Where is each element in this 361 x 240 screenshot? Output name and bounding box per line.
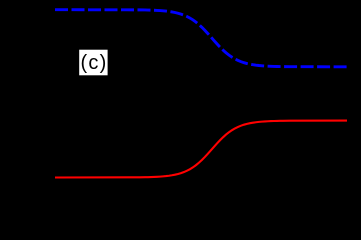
svg-text:(c): (c) <box>81 52 108 74</box>
panel label box <box>79 50 107 76</box>
blue dashed sigmoid curve (upper, descending) <box>55 10 347 67</box>
red solid sigmoid curve (lower, ascending) <box>55 121 347 178</box>
